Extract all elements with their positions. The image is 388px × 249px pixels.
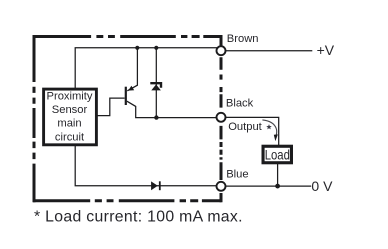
svg-text:Brown: Brown (227, 33, 259, 45)
svg-text:Black: Black (226, 97, 254, 109)
svg-text:+V: +V (317, 42, 335, 58)
svg-text:Output: Output (228, 121, 262, 133)
svg-text:0 V: 0 V (311, 178, 333, 194)
svg-text:circuit: circuit (55, 131, 85, 143)
svg-text:main: main (57, 118, 81, 130)
svg-text:* Load current: 100 mA max.: * Load current: 100 mA max. (34, 208, 243, 225)
svg-text:Blue: Blue (226, 169, 248, 181)
svg-text:Proximity: Proximity (47, 90, 93, 102)
svg-text:Load: Load (265, 146, 290, 162)
svg-text:Sensor: Sensor (52, 104, 88, 116)
